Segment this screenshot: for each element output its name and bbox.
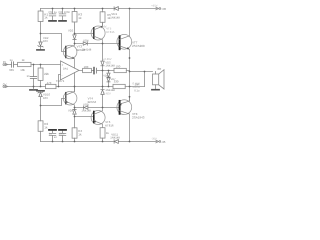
svg-text:10V: 10V [43, 39, 48, 43]
svg-text:1k: 1k [78, 132, 82, 136]
ground (input, x33.5) [30, 89, 37, 91]
svg-text:63V: 63V [9, 68, 14, 72]
wire output to speaker [130, 71, 156, 75]
svg-text:IN: IN [3, 60, 6, 64]
svg-text:-35V: -35V [151, 138, 157, 141]
svg-text:VD1: VD1 [111, 12, 117, 16]
svg-text:100n: 100n [64, 11, 70, 14]
wire zobel return [144, 72, 146, 87]
svg-text:0V: 0V [3, 83, 7, 87]
svg-text:x2: x2 [54, 136, 57, 139]
svg-text:+35V: +35V [151, 5, 157, 8]
capacitor C2 (100n to gnd) [59, 9, 66, 21]
wire zener bottom link [41, 99, 66, 106]
wire VT6 base y116.5 [75, 116, 94, 118]
svg-text:VD4: VD4 [83, 40, 89, 43]
resistor R3 (x74.5 top vertical) [72, 9, 77, 35]
svg-text:1N4148: 1N4148 [105, 65, 115, 68]
svg-text:+0.65V: +0.65V [103, 58, 112, 61]
resistor R1 (top left vertical) [38, 9, 43, 34]
ground (C4) [59, 129, 66, 131]
resistor R6 (x102.5 bottom) [100, 128, 105, 142]
svg-text:BC546: BC546 [77, 48, 86, 52]
svg-text:1N4148: 1N4148 [105, 89, 115, 92]
zener VD10 (bottom, x40.5) [38, 92, 43, 106]
transistor VT7 (top output, NPN big) [117, 9, 132, 101]
svg-text:-: - [62, 73, 63, 77]
wire zener top link [41, 34, 66, 52]
svg-text:1N4148: 1N4148 [110, 17, 120, 20]
ground (C3) [49, 129, 56, 131]
svg-text:1N4148: 1N4148 [81, 110, 91, 113]
svg-text:100: 100 [116, 65, 121, 69]
diode VD3 (vertical, x74.5) [73, 35, 76, 44]
diode VD9 (horizontal, y107.5 pointing left) [84, 106, 88, 109]
ground (C1) [49, 20, 56, 22]
svg-text:DA1: DA1 [63, 68, 69, 71]
svg-text:TL071: TL071 [56, 79, 65, 83]
resistor R2 330 (feedback 2) [113, 84, 125, 88]
speaker BA1 [153, 70, 165, 89]
wire drive line y70.5 [103, 70, 130, 72]
wire top +rail [41, 8, 158, 10]
ground (C2) [59, 20, 66, 22]
wire x102.5 mid [102, 71, 104, 90]
svg-text:1n: 1n [27, 74, 31, 78]
terminal IN arrow [3, 63, 8, 65]
wire bottom -rail [41, 141, 157, 143]
svg-text:VD8: VD8 [68, 110, 74, 113]
diode VD11 (series in bottom rail) [114, 140, 118, 144]
ground (zener bottom) [37, 90, 44, 92]
svg-text:100: 100 [84, 65, 89, 69]
svg-text:1k: 1k [106, 131, 110, 135]
resistor R-in (horizontal input) [18, 62, 31, 66]
transistor VT8 (bottom output, PNP big) [117, 97, 132, 142]
svg-text:1u: 1u [10, 58, 14, 62]
capacitor C4 (bottom, x62.5) [59, 131, 66, 142]
svg-text:KT816: KT816 [105, 123, 114, 127]
svg-text:1k: 1k [22, 58, 26, 62]
resistor R4 (x74.5 bottom) [72, 117, 77, 142]
diode VD4 (horizontal, y43.5) [83, 42, 87, 45]
resistor R1 100 (drive) [114, 68, 126, 72]
capacitor C-in (series input) [12, 62, 14, 67]
transistor VT4 (bottom driver PNP) [63, 87, 77, 108]
svg-text:470: 470 [47, 81, 52, 85]
node A wire y43.5 with diode VD4 [75, 43, 120, 45]
svg-text:8R: 8R [158, 67, 163, 71]
resistor R5 (x102.5 top vertical) [100, 9, 105, 27]
terminal +35V arrow [156, 7, 161, 10]
svg-text:C6: C6 [59, 11, 63, 14]
svg-text:10k: 10k [20, 68, 25, 72]
svg-text:10R: 10R [135, 84, 140, 87]
wire opamp V- stub [74, 73, 76, 92]
diode VD1 (series in top rail) [114, 7, 118, 11]
ground (speaker) [152, 89, 159, 91]
op-amp U1 triangle [61, 61, 80, 80]
diode VD6 pair on x108.5 stub [107, 71, 110, 87]
svg-text:330: 330 [114, 80, 119, 84]
wire y33.5 base link to VT5 [75, 33, 94, 35]
capacitor C3 (bottom, x52.5) [49, 131, 56, 142]
node B wire y107.5 with diode VD9 [75, 107, 120, 109]
wire feedback line [5, 86, 144, 88]
svg-text:BC556: BC556 [88, 100, 97, 104]
svg-text:1k: 1k [44, 125, 48, 129]
svg-text:0.1u: 0.1u [134, 89, 140, 92]
wire minus input stub [59, 75, 61, 87]
capacitor C1 (10u to gnd) [49, 9, 56, 21]
zener VD2 (top, x40.5) [38, 34, 43, 50]
resistor R2b (x40.5 bottom) [38, 106, 43, 142]
diode VD5 (x102.5, y61-66) [101, 44, 104, 71]
svg-text:-0.65V: -0.65V [103, 93, 111, 96]
diode VD8 (vertical x74.5 bottom) [73, 108, 76, 117]
svg-text:1k: 1k [78, 16, 82, 20]
resistor R 22k (x40.5) [38, 65, 43, 87]
svg-text:2SC5200: 2SC5200 [132, 44, 145, 48]
svg-text:100n: 100n [59, 133, 65, 136]
svg-text:1u: 1u [54, 11, 57, 14]
wire input line [5, 64, 60, 66]
svg-text:+: + [62, 63, 64, 67]
transistor VT5 (upper middle, emitter-up) [91, 22, 105, 43]
capacitor C 1n (x33.5) [30, 65, 36, 87]
svg-text:22k: 22k [44, 72, 49, 76]
svg-text:VD3: VD3 [68, 29, 74, 32]
svg-text:-35: -35 [161, 140, 166, 144]
ground (zener top) [37, 49, 44, 51]
svg-text:VD6: VD6 [103, 75, 109, 78]
svg-text:1k: 1k [44, 16, 48, 20]
transistor VT1 (top driver, NPN) [63, 44, 77, 69]
svg-text:2SA1943: 2SA1943 [132, 115, 145, 119]
terminal 0V arrow [3, 85, 8, 87]
transistor VT6 (lower middle PNP, emitter-down) [91, 108, 105, 128]
resistor R 100 (op-amp out) [79, 68, 93, 72]
capacitor C-comp [94, 68, 103, 74]
svg-text:+35: +35 [161, 7, 166, 11]
diode VD7 (x102.5, y89-94.4) [101, 90, 104, 108]
junction dots [33, 8, 146, 143]
svg-text:1N4148: 1N4148 [110, 137, 120, 140]
svg-text:KT815: KT815 [106, 30, 115, 34]
svg-text:10V: 10V [43, 96, 48, 100]
resistor R 470 (feedback) [45, 84, 56, 88]
terminal -35V arrow [156, 140, 161, 143]
svg-text:VD9: VD9 [83, 104, 89, 107]
svg-text:C5: C5 [49, 11, 53, 14]
